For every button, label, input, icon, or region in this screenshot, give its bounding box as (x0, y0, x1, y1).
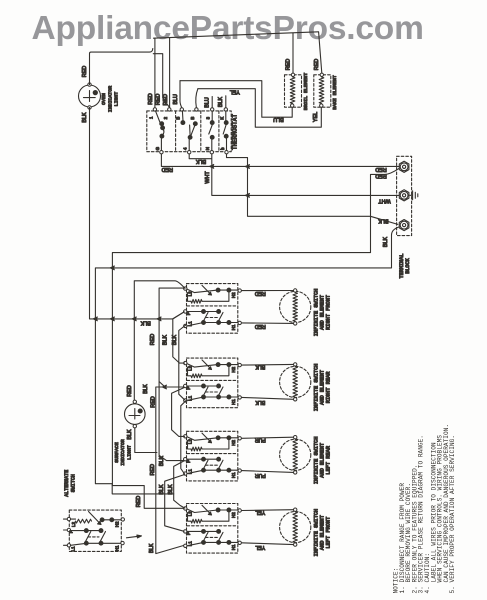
wire: blk bus from terminal block (95, 227, 399, 494)
svg-text:RED: RED (255, 290, 266, 296)
svg-text:H1: H1 (115, 545, 120, 551)
svg-text:LIGHT: LIGHT (114, 92, 120, 107)
wire: blk to terminal block (227, 154, 398, 225)
svg-text:BLK: BLK (168, 484, 174, 495)
svg-text:P: P (186, 387, 191, 390)
svg-text:SWITCH: SWITCH (70, 474, 76, 492)
svg-text:BLK: BLK (149, 543, 155, 553)
wire: blk link thermostat (189, 154, 212, 165)
svg-text:H2: H2 (231, 512, 236, 518)
svg-text:P: P (186, 532, 191, 535)
svg-text:THERMOSTAT: THERMOSTAT (232, 114, 239, 150)
svg-text:BLK: BLK (159, 484, 165, 495)
svg-text:PUR: PUR (255, 437, 266, 443)
svg-text:L2: L2 (187, 291, 192, 297)
svg-text:H2: H2 (115, 521, 120, 527)
svg-text:RED: RED (150, 464, 156, 475)
svg-text:AppliancePartsPros.com: AppliancePartsPros.com (32, 10, 424, 47)
svg-text:OVEN: OVEN (101, 93, 107, 105)
wire: yel riser to inner bus (196, 89, 198, 108)
wire: oven light red feed (90, 49, 153, 85)
svg-text:LEFT REAR: LEFT REAR (326, 445, 332, 474)
notice text (393, 424, 457, 594)
svg-text:BLK: BLK (255, 364, 265, 370)
svg-text:BLU: BLU (273, 116, 284, 122)
surface indicator light (114, 385, 145, 466)
surface element right front (242, 289, 332, 337)
svg-text:BLK: BLK (218, 97, 224, 108)
svg-text:RED: RED (127, 385, 133, 396)
infinite switch left rear (184, 431, 242, 481)
svg-text:LEFT FRONT: LEFT FRONT (326, 517, 332, 549)
wire: blu bus thermostat to broil element (180, 81, 292, 118)
svg-text:B: B (176, 117, 181, 120)
svg-text:L1: L1 (187, 321, 192, 327)
terminal block (397, 156, 418, 278)
wire: surface light red feed (134, 281, 185, 400)
svg-text:WHT: WHT (205, 171, 211, 184)
svg-text:P: P (186, 460, 191, 463)
svg-text:INFINITE SWITCH: INFINITE SWITCH (313, 364, 319, 412)
svg-text:BLK: BLK (159, 456, 165, 467)
svg-text:H2: H2 (231, 440, 236, 446)
svg-text:RED: RED (375, 173, 386, 179)
svg-text:N: N (205, 147, 210, 150)
infinite switch right front (184, 284, 242, 334)
svg-text:BLK: BLK (143, 384, 149, 394)
ground symbol (410, 191, 418, 200)
oven indicator light (79, 66, 120, 123)
wire: red drop to thermostat 1 (154, 38, 156, 107)
svg-text:L2: L2 (187, 365, 192, 371)
svg-text:SURFACE: SURFACE (114, 442, 120, 463)
wire: top red bus (154, 32, 319, 38)
svg-text:INFINITE SWITCH: INFINITE SWITCH (313, 289, 319, 337)
wire: L2 corner feed (159, 288, 184, 461)
svg-text:TERMINAL: TERMINAL (399, 254, 405, 279)
svg-text:YEL: YEL (255, 544, 265, 550)
svg-text:BLK: BLK (140, 320, 151, 326)
wire: red loop from terminal block (112, 169, 398, 509)
thermostat stub blu (211, 97, 213, 108)
wire: red jog from oven light wire (153, 54, 169, 107)
svg-text:L2: L2 (71, 522, 76, 528)
svg-text:RED: RED (314, 59, 320, 70)
svg-text:AND ELEMENT: AND ELEMENT (320, 515, 326, 550)
svg-text:PUR: PUR (255, 472, 266, 478)
svg-text:L1: L1 (187, 395, 192, 401)
svg-text:G: G (155, 146, 160, 150)
svg-text:BLU: BLU (205, 97, 211, 108)
svg-text:YEL: YEL (313, 112, 319, 122)
wire: surface light blk (135, 428, 157, 453)
infinite switch right rear (184, 358, 242, 408)
svg-text:BLK: BLK (163, 335, 169, 346)
svg-text:L2: L2 (187, 439, 192, 445)
svg-text:BLK: BLK (383, 237, 389, 248)
thermostat stub blk (225, 96, 227, 108)
svg-text:RED: RED (136, 496, 142, 507)
infinite switch left front (184, 504, 242, 554)
svg-text:BLK: BLK (378, 218, 389, 224)
svg-text:B: B (190, 117, 195, 120)
wire: wht to terminal block (212, 166, 399, 195)
svg-text:BLK: BLK (82, 112, 88, 123)
svg-text:RED: RED (255, 323, 266, 329)
broil element (285, 59, 310, 111)
wire: gap1 risers (173, 312, 185, 363)
svg-text:WHT: WHT (378, 198, 391, 204)
alternate switch pointer arrow (127, 536, 140, 538)
svg-text:RED: RED (82, 66, 88, 77)
svg-text:L1: L1 (187, 469, 192, 475)
svg-text:RED: RED (148, 93, 154, 104)
svg-text:L2: L2 (187, 511, 192, 517)
svg-text:RED: RED (162, 166, 173, 172)
wire: gap2 risers (172, 388, 185, 437)
svg-text:YEL: YEL (255, 509, 265, 515)
wire: oven light blk to switch 1 (90, 107, 185, 319)
svg-text:INFINITE SWITCH: INFINITE SWITCH (313, 436, 319, 484)
svg-text:BLK: BLK (172, 335, 178, 346)
svg-text:RED: RED (375, 166, 386, 172)
wire: blu riser to outer bus (180, 81, 182, 108)
svg-text:H1: H1 (231, 472, 236, 478)
wire: tee to P2 (160, 382, 165, 387)
svg-text:RIGHT FRONT: RIGHT FRONT (326, 295, 332, 330)
svg-text:RED: RED (151, 396, 157, 407)
thermostat (147, 108, 239, 154)
svg-text:LIGHT: LIGHT (126, 445, 132, 460)
svg-text:RED: RED (285, 59, 291, 70)
svg-text:BROIL ELEMENT: BROIL ELEMENT (303, 73, 309, 111)
svg-text:AND ELEMENT: AND ELEMENT (320, 443, 326, 478)
svg-text:P: P (186, 312, 191, 315)
wire: red drop to thermostat 2 (169, 38, 171, 108)
wire: yel bus thermostat to bake element (198, 89, 321, 128)
wire: broil element top riser (292, 33, 294, 73)
alternate switch (64, 470, 125, 552)
svg-text:BLK: BLK (255, 399, 265, 405)
svg-text:INFINITE SWITCH: INFINITE SWITCH (313, 509, 319, 557)
svg-text:BLK: BLK (196, 158, 207, 164)
svg-text:RED: RED (150, 334, 156, 345)
svg-text:RED: RED (163, 94, 169, 105)
svg-text:L1: L1 (187, 541, 192, 547)
svg-text:H1: H1 (231, 399, 236, 405)
svg-text:BLK: BLK (127, 429, 133, 440)
svg-text:BLOCK: BLOCK (405, 257, 411, 273)
svg-text:H1: H1 (231, 324, 236, 330)
svg-text:BLU: BLU (173, 94, 179, 105)
svg-text:RIGHT REAR: RIGHT REAR (326, 371, 332, 404)
surface element right rear (242, 363, 332, 412)
wire: red bus to terminal block (161, 154, 398, 167)
svg-text:RED: RED (155, 94, 161, 105)
wire: bake element top riser (319, 32, 322, 73)
bake element (314, 59, 338, 110)
svg-text:ALTERNATE: ALTERNATE (64, 470, 70, 497)
svg-text:YEL: YEL (230, 88, 240, 94)
svg-text:AND ELEMENT: AND ELEMENT (320, 295, 326, 330)
svg-text:5. VERIFY PROPER OPERATION AFT: 5. VERIFY PROPER OPERATION AFTER SERVICI… (449, 435, 456, 593)
wire: blk riser P2 to L1 left front (156, 387, 184, 554)
wire: gap3 risers (174, 461, 185, 508)
svg-text:INDICATOR: INDICATOR (120, 439, 126, 465)
svg-text:L1: L1 (71, 546, 76, 552)
svg-text:P: P (68, 530, 73, 533)
svg-text:AND ELEMENT: AND ELEMENT (320, 370, 326, 405)
svg-text:H2: H2 (231, 366, 236, 372)
surface element left rear (242, 436, 332, 485)
svg-text:INDICATOR: INDICATOR (107, 86, 113, 112)
surface element left front (242, 508, 332, 556)
svg-text:K: K (219, 117, 224, 120)
svg-text:H1: H1 (231, 544, 236, 550)
svg-text:H2: H2 (231, 292, 236, 298)
svg-text:BAKE ELEMENT: BAKE ELEMENT (332, 75, 338, 110)
